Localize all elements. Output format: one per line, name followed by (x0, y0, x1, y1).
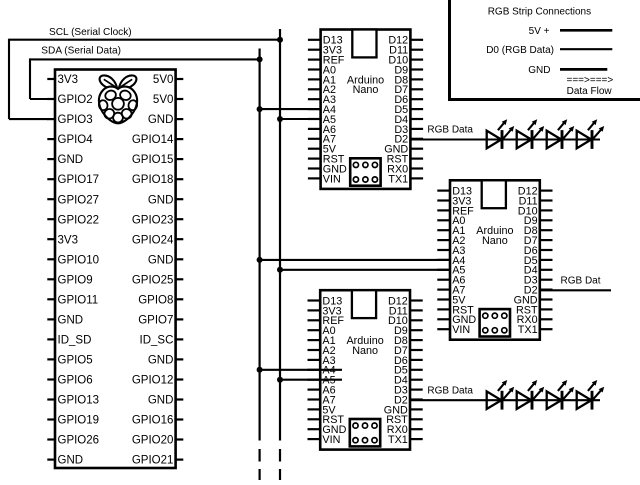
svg-text:GPIO20: GPIO20 (132, 435, 174, 447)
net label SCL (49, 27, 132, 38)
svg-text:RGB Dat: RGB Dat (561, 275, 601, 286)
U2 USB notch (352, 30, 376, 58)
svg-text:SCL (Serial Clock): SCL (Serial Clock) (49, 27, 132, 38)
U4 left pin labels (322, 295, 346, 446)
U2 ICSP header (350, 158, 380, 185)
Arduino Nano U2 (321, 30, 411, 189)
svg-text:GPIO25: GPIO25 (132, 274, 174, 286)
U3 right pin stubs (540, 191, 553, 330)
Raspberry Pi GPIO header U1 (55, 70, 176, 469)
U4 ICSP header (350, 419, 380, 446)
svg-text:GPIO12: GPIO12 (132, 375, 174, 387)
svg-text:GND: GND (148, 355, 174, 367)
wire SCL to U2 pin A5 (280, 118, 322, 120)
svg-text:3V3: 3V3 (58, 74, 78, 86)
svg-text:ID_SC: ID_SC (140, 335, 174, 347)
LED D6 (517, 380, 545, 410)
legend title (488, 7, 591, 18)
U3 right pin labels (514, 186, 538, 337)
LED D4 (577, 119, 605, 149)
svg-text:GPIO7: GPIO7 (138, 315, 173, 327)
svg-text:GPIO4: GPIO4 (58, 134, 94, 146)
net label RGB Data (U2) (427, 125, 473, 136)
wire SCL to U3 pin A5 (280, 269, 451, 271)
svg-text:GPIO19: GPIO19 (58, 415, 100, 427)
U2 part name label (347, 74, 384, 96)
svg-text:GPIO5: GPIO5 (58, 355, 93, 367)
svg-text:GPIO10: GPIO10 (58, 254, 100, 266)
svg-text:GND: GND (58, 455, 84, 467)
svg-text:GND: GND (148, 114, 174, 126)
svg-text:GPIO26: GPIO26 (58, 435, 100, 447)
svg-text:3V3: 3V3 (58, 234, 78, 246)
net label SDA (41, 45, 121, 56)
Raspberry Pi logo (98, 75, 138, 123)
svg-text:VIN: VIN (322, 434, 340, 446)
LED D2 (517, 119, 545, 149)
wire SDA horizontal (30, 58, 260, 60)
LED D3 (547, 119, 575, 149)
Arduino Nano U3 (450, 180, 540, 339)
junction SCL/A5-U4 (277, 377, 283, 383)
U2 right pin stubs (410, 40, 423, 179)
svg-text:VIN: VIN (323, 173, 341, 185)
svg-text:GND: GND (148, 194, 174, 206)
svg-text:GPIO17: GPIO17 (58, 174, 100, 186)
wire SCL bus vertical (279, 29, 281, 441)
junction SDA/A4-U4 (257, 367, 263, 373)
U4 right pin stubs (410, 301, 423, 440)
svg-text:GPIO16: GPIO16 (132, 415, 174, 427)
svg-text:GPIO6: GPIO6 (58, 375, 93, 387)
wire SDA bus dashed continuation (259, 449, 261, 480)
legend data flow label (567, 86, 613, 97)
net label RGB Dat (U3) (561, 275, 601, 286)
wire SDA to U4 pin A4 (260, 369, 342, 371)
svg-text:RGB Data: RGB Data (427, 125, 473, 136)
svg-text:5V +: 5V + (529, 26, 550, 37)
wire SCL to U4 pin A5 (280, 379, 342, 381)
svg-text:D0 (RGB Data): D0 (RGB Data) (486, 45, 554, 56)
svg-text:ID_SD: ID_SD (58, 335, 92, 347)
wire SDA bus vertical (259, 49, 261, 441)
svg-text:Nano: Nano (353, 84, 379, 96)
svg-text:TX1: TX1 (518, 324, 538, 336)
svg-text:GPIO11: GPIO11 (58, 294, 99, 306)
svg-text:GPIO22: GPIO22 (58, 214, 100, 226)
legend data flow symbol (567, 75, 614, 86)
svg-text:GND: GND (148, 254, 174, 266)
LED D8 (577, 380, 605, 410)
junction SCL/A5-U2 (277, 116, 283, 122)
svg-text:GPIO24: GPIO24 (132, 234, 174, 246)
wire SDA to U2 pin A4 (260, 108, 322, 110)
junction SCL bus top (277, 37, 283, 43)
wire SDA to U3 pin A4 (260, 259, 451, 261)
U3 part name label (476, 225, 513, 247)
svg-text:GPIO15: GPIO15 (132, 154, 174, 166)
U3 ICSP header (480, 309, 510, 336)
U4 part name label (346, 335, 383, 357)
junction SDA/A4-U2 (257, 106, 263, 112)
U4 right pin labels (384, 295, 408, 446)
svg-text:GPIO23: GPIO23 (132, 214, 174, 226)
wire SCL bus dashed continuation (279, 449, 281, 480)
wire SCL vertical to GPIO3 (9, 39, 48, 119)
legend entry D0 RGB Data (486, 45, 612, 56)
junction SDA/A4-U3 (257, 257, 263, 263)
wire SCL horizontal (9, 39, 280, 41)
svg-text:5V0: 5V0 (153, 74, 173, 86)
svg-text:TX1: TX1 (388, 173, 408, 185)
wire U3 D2 to LED strip 2 (540, 289, 611, 291)
Arduino Nano U4 (320, 290, 410, 449)
U4 USB notch (352, 290, 376, 318)
U2 left pin stubs (308, 40, 321, 179)
svg-text:VIN: VIN (452, 324, 470, 336)
U1 right pin stubs (176, 79, 184, 460)
svg-text:RGB Data: RGB Data (427, 385, 473, 396)
svg-text:GPIO21: GPIO21 (132, 455, 174, 467)
svg-text:Nano: Nano (352, 345, 378, 357)
U1 left pin stubs (47, 79, 55, 460)
junction SCL/A5-U3 (277, 267, 283, 273)
svg-text:GPIO2: GPIO2 (58, 94, 93, 106)
U4 left pin stubs (308, 301, 321, 440)
svg-text:Nano: Nano (482, 235, 508, 247)
svg-text:GND: GND (528, 65, 550, 76)
U2 right pin labels (384, 35, 408, 186)
svg-text:GPIO9: GPIO9 (58, 274, 93, 286)
junction SDA bus top (257, 56, 263, 62)
svg-text:GND: GND (58, 315, 84, 327)
wire U4 D2 to LED strip 3 (410, 399, 600, 401)
legend entry 5V+ (529, 26, 613, 37)
wire U2 D2 to LED strip 1 (410, 138, 600, 140)
U3 USB notch (482, 180, 506, 208)
svg-text:GND: GND (148, 395, 174, 407)
svg-text:GND: GND (58, 154, 84, 166)
svg-text:GPIO13: GPIO13 (58, 395, 100, 407)
svg-text:GPIO27: GPIO27 (58, 194, 100, 206)
wire SDA vertical to GPIO2 (30, 58, 48, 99)
svg-text:GPIO14: GPIO14 (132, 134, 174, 146)
legend box RGB Strip Connections (450, 0, 640, 100)
svg-text:SDA (Serial Data): SDA (Serial Data) (41, 45, 121, 56)
svg-text:GPIO8: GPIO8 (138, 294, 173, 306)
U1 left pin labels (58, 74, 100, 467)
LED D1 (487, 119, 515, 149)
U1 right pin labels (132, 74, 174, 467)
U3 left pin labels (452, 186, 476, 337)
svg-text:RGB Strip Connections: RGB Strip Connections (488, 7, 591, 18)
LED D5 (487, 380, 515, 410)
svg-text:5V0: 5V0 (153, 94, 173, 106)
U3 left pin stubs (437, 191, 450, 330)
svg-text:TX1: TX1 (388, 434, 408, 446)
LED D7 (547, 380, 575, 410)
legend entry GND (528, 65, 607, 76)
svg-text:GPIO3: GPIO3 (58, 114, 93, 126)
svg-text:GPIO18: GPIO18 (132, 174, 174, 186)
svg-text:===>===>: ===>===> (567, 75, 614, 86)
net label RGB Data (U4) (427, 385, 473, 396)
svg-text:Data Flow: Data Flow (567, 86, 613, 97)
U2 left pin labels (323, 35, 347, 186)
